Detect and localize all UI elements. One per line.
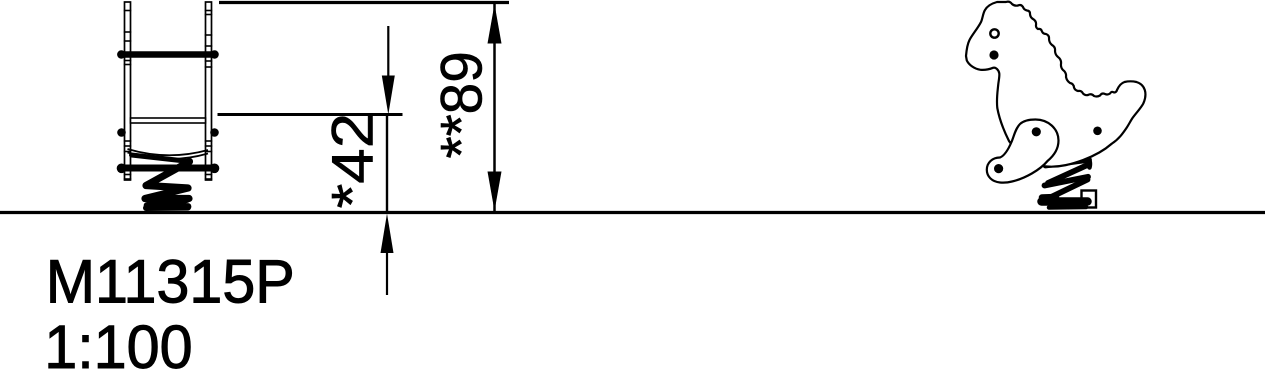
lower bar right knob (210, 164, 220, 174)
horse spring bottom coil (1042, 197, 1088, 206)
lower frame bar (123, 165, 213, 172)
svg-text:*42: *42 (320, 113, 385, 209)
dim 42 lower line (386, 250, 388, 295)
lower bar left knob (117, 164, 127, 174)
seat bar (131, 118, 206, 123)
left spring coil (145, 162, 190, 199)
dim 89 bottom arrow (488, 172, 502, 212)
seat pivot right (210, 128, 219, 137)
left spring top coil (132, 155, 190, 162)
left post (125, 2, 131, 180)
footrest (987, 120, 1059, 183)
top extension line (219, 1, 509, 4)
horse spring coil right curl (1087, 161, 1092, 168)
dim 89 line (493, 4, 496, 211)
horse spring coil top band (1046, 160, 1090, 166)
seat extension line (218, 113, 403, 116)
footrest bolt lower (994, 164, 1003, 173)
horse nostril dot (989, 50, 998, 59)
horse spring coil band 2 (1045, 177, 1089, 186)
horse spring bottom left blob (1042, 194, 1056, 201)
seat sag curve lower (128, 153, 209, 160)
dim 42 upper line (387, 26, 389, 80)
handlebar (123, 51, 213, 58)
dim 89 top arrow (488, 4, 502, 44)
left spring bottom coil (146, 205, 188, 212)
horse body (966, 2, 1145, 167)
handlebar left knob (117, 50, 125, 58)
dim 42 upper arrow (382, 76, 395, 115)
handlebar right knob (210, 50, 218, 58)
seat pivot left (117, 128, 126, 137)
svg-text:1:100: 1:100 (44, 312, 192, 369)
svg-text:**89: **89 (430, 51, 495, 158)
dim 42 span line (386, 115, 388, 213)
horse spring diagonal 2 (1046, 180, 1088, 200)
horse spring bottom edge (1049, 205, 1086, 210)
horse body bolt dot (1093, 127, 1102, 136)
right post (206, 2, 212, 180)
right post ticks (205, 11, 212, 180)
ground line (0, 211, 1265, 214)
left post ticks (124, 11, 131, 180)
seat sag curve upper (128, 149, 209, 155)
dim 42 lower arrow (381, 214, 394, 254)
svg-text:M11315P: M11315P (46, 246, 295, 315)
footrest bolt upper (1032, 127, 1041, 136)
horse eye (990, 29, 998, 37)
left spring coil lower (147, 200, 188, 207)
horse spring anchor square (1082, 191, 1097, 208)
horse spring diagonal 1 (1048, 165, 1089, 184)
